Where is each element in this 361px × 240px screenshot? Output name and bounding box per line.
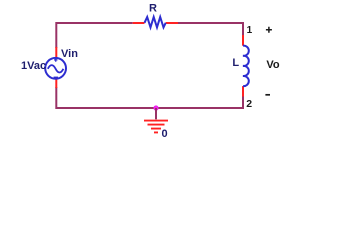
node junction dot [153,105,158,110]
ground symbol bars [144,121,168,133]
voltage source minus mark [54,77,59,80]
svg-text:Vin: Vin [61,48,78,60]
resistor R right lead [166,22,178,24]
voltage source plus mark [54,58,58,62]
voltage source Vin pin lead bottom [55,79,57,89]
annotation minus (Vo polarity) [265,94,270,96]
svg-text:Vo: Vo [266,59,280,71]
wire: bottom rail (left vertical lower, bottom horizontal, right vertical lower) [56,87,243,108]
ground stub wire [155,108,157,119]
svg-text:2: 2 [246,98,252,110]
voltage source Vin pin lead top [55,47,57,59]
svg-text:1: 1 [247,25,253,36]
svg-text:L: L [232,57,239,69]
inductor L pin lead top [242,35,244,46]
voltage source Vin circle [45,58,66,79]
inductor L coil [243,46,249,86]
wire: left vertical + top-left horizontal segment [56,23,132,48]
svg-text:0: 0 [162,128,168,140]
svg-text:1Vac: 1Vac [21,60,46,72]
inductor L pin lead bottom [242,86,244,96]
voltage source sine wave [48,65,64,72]
wire: top-right horizontal segment + right vertical upper [178,23,243,35]
resistor R left lead [133,22,145,24]
annotation plus (Vo polarity) [266,27,272,33]
svg-text:R: R [149,3,157,15]
resistor R body [145,17,166,27]
